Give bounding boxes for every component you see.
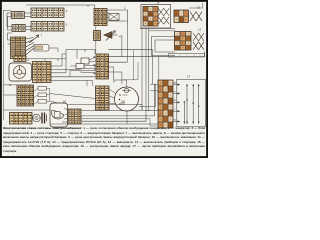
junction d1 bbox=[9, 84, 11, 86]
fan arrows into X4 bbox=[80, 57, 96, 73]
wire bc1 bbox=[81, 110, 150, 112]
generator connector X9 bbox=[96, 86, 110, 110]
starter rotor bbox=[51, 110, 64, 119]
wire mr3 bbox=[109, 61, 128, 63]
wire slope2 bbox=[50, 101, 60, 103]
wire bc5 bbox=[146, 110, 158, 112]
ignition connector X3 bbox=[33, 62, 52, 83]
wire r drop bbox=[49, 88, 51, 101]
wire gen bottom bbox=[126, 111, 128, 124]
instrument connector X14 bbox=[158, 80, 173, 128]
arrow terminal A2 bbox=[173, 93, 179, 95]
wire ignition right bbox=[51, 72, 66, 74]
wire bc4 bbox=[68, 105, 143, 111]
wire A to table bbox=[24, 12, 31, 14]
wire F loop bbox=[66, 50, 95, 73]
resistor R2 bbox=[38, 93, 47, 97]
wire mid h1 bbox=[51, 76, 96, 78]
wire 7 top bbox=[4, 84, 18, 86]
wire t2 bbox=[150, 90, 158, 92]
lamp 11b bbox=[193, 42, 204, 50]
svg-text:10: 10 bbox=[63, 100, 67, 104]
wire left loop A2 bbox=[8, 17, 12, 31]
wire bc7 bbox=[81, 119, 158, 127]
svg-text:11: 11 bbox=[198, 28, 201, 32]
wire v148 bbox=[148, 28, 150, 111]
fuse block F1 bbox=[11, 12, 24, 19]
relay K2 coil bbox=[81, 58, 89, 64]
wire bc6 bbox=[139, 84, 156, 107]
switch block S1 bbox=[11, 37, 26, 59]
wire F loop2b bbox=[70, 65, 77, 67]
wire gen rect bbox=[123, 62, 138, 80]
svg-text:17: 17 bbox=[187, 75, 191, 79]
horn B1 bbox=[33, 114, 41, 122]
connector X12 bbox=[174, 10, 189, 23]
resistor R3 bbox=[38, 100, 47, 104]
wire X6 down bbox=[95, 41, 97, 54]
wire vx92 bbox=[91, 80, 93, 86]
wire bc2 bbox=[81, 84, 155, 116]
wire v127 bbox=[126, 28, 128, 62]
wire left drop bbox=[3, 10, 5, 120]
wire 11 h2 bbox=[149, 30, 175, 32]
arrow terminal A5 bbox=[173, 121, 179, 123]
shunt bar component bbox=[169, 54, 205, 57]
wire gen v133 bbox=[133, 50, 135, 80]
relay body K1 bbox=[34, 45, 49, 52]
headlight connector X8 bbox=[143, 7, 158, 27]
starter connector X10 bbox=[68, 109, 81, 124]
connector table X1 bbox=[31, 8, 64, 18]
wire A to table 2 bbox=[24, 16, 31, 18]
wire top loop3 bbox=[107, 17, 109, 19]
bus line 2 bbox=[192, 84, 194, 124]
switch arrow symbol bbox=[29, 35, 39, 43]
connector table X2 bbox=[31, 22, 64, 32]
fuse block F2 bbox=[12, 25, 25, 32]
wire 12 frame bbox=[189, 3, 203, 8]
battery connector X13 bbox=[10, 113, 33, 125]
wire mr5 bbox=[109, 72, 122, 84]
relay connector X4 bbox=[96, 54, 109, 79]
lamp X pair 8a bbox=[158, 8, 169, 16]
wire B to table bbox=[25, 26, 31, 28]
connector X6 bbox=[94, 31, 101, 41]
bus line 3 bbox=[198, 84, 200, 124]
arrow terminal A3 bbox=[173, 101, 179, 103]
wire 11 loop outer bbox=[152, 37, 176, 56]
relay K2 contact bbox=[76, 64, 84, 69]
svg-text:12: 12 bbox=[197, 6, 201, 10]
wire relay K1 out bbox=[49, 48, 58, 52]
wire v152 bbox=[152, 50, 154, 84]
unit 8 box bbox=[141, 5, 171, 29]
ignition switch rotor bbox=[13, 66, 26, 79]
arrow terminal A1 bbox=[173, 84, 179, 86]
wire mr1 bbox=[109, 49, 153, 51]
fan arrows to generator bbox=[109, 89, 118, 104]
wire 7 mid bbox=[4, 94, 18, 96]
fan wires switch S1 bbox=[26, 38, 35, 56]
border frame bbox=[1, 1, 207, 157]
buzzer symbol L1 bbox=[104, 32, 113, 39]
relay K3 bbox=[109, 14, 119, 21]
arrow terminal A4 bbox=[173, 110, 179, 112]
fan starter wires bbox=[62, 108, 68, 122]
terminal strip T1 bbox=[14, 56, 26, 62]
bus line 4 short bbox=[183, 101, 185, 124]
battery GB1 bbox=[42, 113, 45, 124]
starter body bbox=[50, 103, 68, 127]
lamp X pair 8b bbox=[158, 17, 169, 25]
wire v160 bbox=[158, 57, 160, 80]
wire F loop1b bbox=[76, 50, 78, 59]
wire v142 bbox=[141, 28, 143, 110]
wire mid h2 bbox=[51, 79, 92, 81]
wire bl1 bbox=[4, 109, 51, 111]
wire 11 h bbox=[140, 28, 175, 30]
wire t1 bbox=[150, 83, 158, 85]
wire F loop2 bbox=[70, 66, 95, 77]
wire bl2 bbox=[32, 115, 33, 117]
wire ignition r2 bbox=[51, 54, 66, 66]
wire top loop b bbox=[107, 20, 127, 22]
wire B to table 2 bbox=[25, 29, 31, 31]
bus line 1 bbox=[186, 84, 188, 124]
bus panel box bbox=[177, 79, 206, 127]
lamp 12a bbox=[190, 12, 202, 21]
connector X5 bbox=[94, 9, 107, 26]
generator G1 bbox=[115, 87, 139, 111]
wire top loop bbox=[107, 10, 127, 28]
relay pin strip bbox=[36, 46, 43, 49]
ignition switch body bbox=[9, 63, 32, 81]
wire ignition r3 bbox=[51, 64, 81, 70]
wire 11 loop inner bbox=[155, 40, 175, 52]
wire mr4 bbox=[109, 67, 114, 77]
wire bc3 bbox=[81, 114, 146, 121]
connector X7 bbox=[17, 85, 34, 106]
wire T1 to relay loop bbox=[26, 58, 66, 60]
wire slope1 bbox=[50, 94, 96, 99]
wire X5-X6 bbox=[95, 26, 97, 31]
lamp 11a bbox=[193, 33, 204, 41]
wire top loop2 bbox=[107, 13, 109, 14]
wire bottom long bbox=[50, 123, 158, 125]
wire gen top bbox=[114, 77, 127, 87]
wire top left bbox=[4, 9, 12, 11]
svg-text:2: 2 bbox=[27, 58, 30, 62]
wire v121 bbox=[121, 35, 123, 57]
resistor R1 bbox=[38, 87, 47, 91]
wire mr2 bbox=[109, 52, 205, 57]
wire left loop B bbox=[8, 33, 12, 40]
wire vx87 bbox=[86, 80, 88, 86]
wire left loop A bbox=[7, 13, 12, 27]
wire left loop B2 bbox=[8, 43, 11, 45]
wire top bus bbox=[27, 5, 95, 9]
wire v146 bbox=[145, 28, 147, 114]
connector X11 bbox=[175, 32, 192, 51]
